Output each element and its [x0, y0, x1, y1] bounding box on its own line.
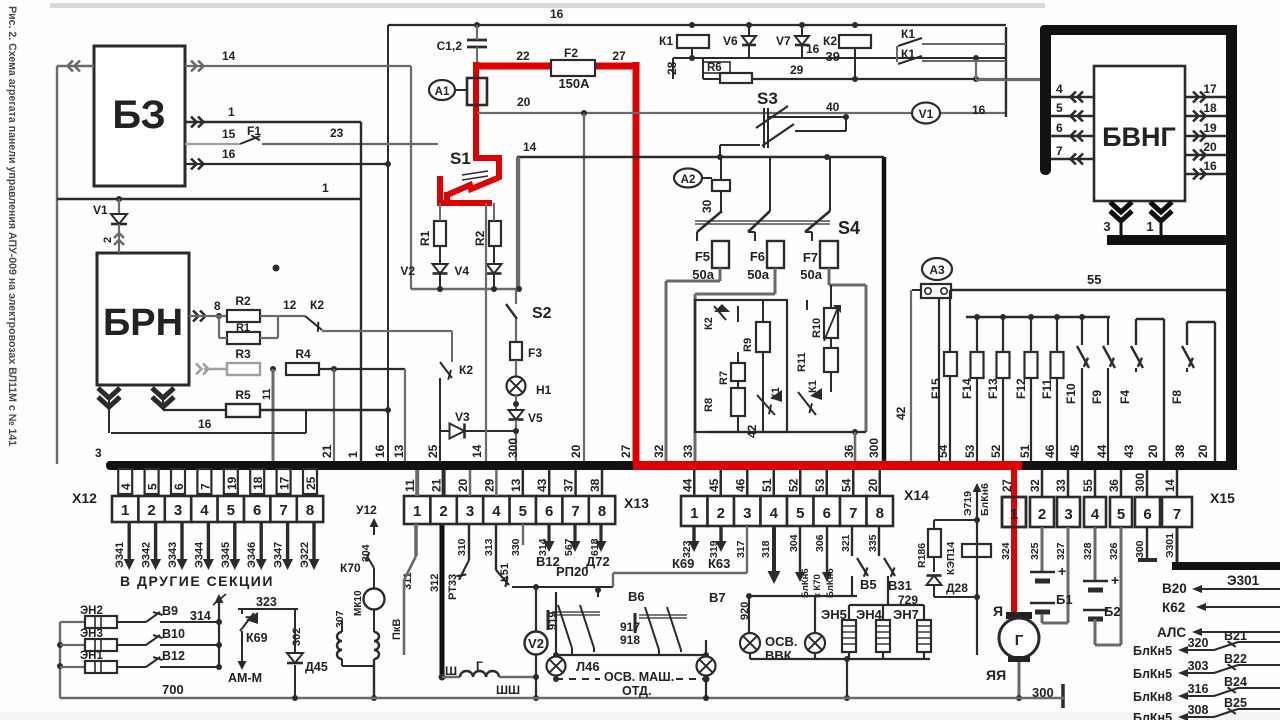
svg-text:2: 2	[439, 503, 447, 520]
svg-text:Э346: Э346	[246, 542, 258, 568]
svg-text:В20: В20	[1162, 581, 1187, 596]
svg-text:8: 8	[306, 502, 314, 519]
svg-text:К1: К1	[901, 27, 915, 41]
svg-text:25: 25	[426, 444, 440, 458]
svg-text:30: 30	[700, 199, 714, 213]
svg-text:К51: К51	[499, 563, 511, 582]
svg-text:ОСВ.: ОСВ.	[765, 634, 798, 649]
svg-text:6: 6	[1056, 121, 1063, 135]
svg-text:Э341: Э341	[114, 542, 126, 568]
svg-text:F6: F6	[750, 249, 765, 264]
svg-text:К1: К1	[659, 34, 673, 48]
svg-text:20: 20	[1196, 444, 1210, 458]
svg-text:1: 1	[228, 105, 235, 119]
svg-text:Э342: Э342	[141, 542, 153, 568]
svg-text:1: 1	[346, 451, 360, 458]
svg-text:4: 4	[492, 503, 501, 520]
svg-text:14: 14	[222, 49, 236, 63]
svg-text:6: 6	[172, 483, 186, 490]
svg-text:38: 38	[1173, 444, 1187, 458]
svg-text:303: 303	[1188, 659, 1209, 673]
svg-text:327: 327	[1055, 542, 1067, 560]
svg-text:R1: R1	[418, 230, 432, 246]
svg-text:Я: Я	[993, 603, 1003, 619]
svg-text:38: 38	[588, 478, 602, 492]
svg-text:S1: S1	[450, 149, 471, 168]
svg-text:F4: F4	[1118, 390, 1132, 404]
svg-text:В ДРУГИЕ СЕКЦИИ: В ДРУГИЕ СЕКЦИИ	[120, 573, 274, 589]
svg-text:РП20: РП20	[556, 564, 588, 579]
svg-text:R186: R186	[916, 543, 928, 568]
svg-text:К1: К1	[807, 380, 819, 393]
svg-text:Э322: Э322	[299, 542, 311, 568]
svg-text:R3: R3	[235, 347, 251, 361]
svg-text:R1: R1	[236, 322, 250, 334]
svg-text:16: 16	[373, 444, 387, 458]
svg-text:C1,2: C1,2	[437, 39, 463, 53]
svg-text:8: 8	[214, 299, 221, 313]
svg-text:20: 20	[866, 478, 880, 492]
svg-text:Э345: Э345	[220, 542, 232, 568]
svg-text:+: +	[1058, 563, 1066, 579]
svg-text:БлКн5: БлКн5	[1133, 711, 1172, 720]
svg-text:Э301: Э301	[1227, 573, 1260, 588]
svg-text:МК10: МК10	[353, 590, 364, 616]
svg-text:52: 52	[989, 444, 1003, 458]
svg-text:Х13: Х13	[624, 495, 649, 511]
svg-text:ОТД.: ОТД.	[622, 684, 651, 698]
svg-text:324: 324	[1000, 542, 1012, 560]
svg-text:44: 44	[1095, 444, 1109, 458]
svg-text:13: 13	[392, 444, 406, 458]
svg-text:307: 307	[334, 610, 346, 628]
svg-text:Л46: Л46	[576, 659, 600, 674]
svg-text:5: 5	[1056, 101, 1063, 115]
svg-text:ЭН7: ЭН7	[893, 607, 919, 622]
svg-text:700: 700	[162, 682, 184, 697]
svg-text:17: 17	[278, 476, 292, 490]
svg-text:5: 5	[519, 503, 527, 520]
svg-text:2: 2	[147, 502, 155, 519]
svg-text:F5: F5	[695, 249, 710, 264]
svg-text:4: 4	[1056, 82, 1063, 96]
svg-text:300: 300	[1135, 473, 1147, 492]
svg-text:БЗ: БЗ	[112, 93, 165, 137]
svg-text:А2: А2	[681, 174, 696, 186]
svg-text:21: 21	[320, 444, 334, 458]
svg-text:6: 6	[545, 503, 553, 520]
svg-text:36: 36	[1109, 479, 1121, 492]
svg-text:Х14: Х14	[904, 487, 929, 503]
svg-text:19: 19	[225, 476, 239, 490]
svg-text:3: 3	[174, 502, 182, 519]
svg-text:R5: R5	[235, 388, 251, 402]
svg-text:В10: В10	[162, 627, 185, 641]
svg-text:Н1: Н1	[536, 383, 552, 397]
svg-text:304: 304	[788, 534, 800, 552]
svg-text:В22: В22	[1224, 652, 1247, 666]
svg-text:БлКн6: БлКн6	[800, 568, 811, 598]
svg-text:ЭН2: ЭН2	[80, 605, 103, 617]
svg-text:БРН: БРН	[103, 302, 183, 344]
svg-text:5: 5	[227, 502, 235, 519]
svg-text:Э343: Э343	[167, 542, 179, 568]
svg-text:52: 52	[786, 478, 800, 492]
svg-text:S2: S2	[532, 305, 552, 322]
svg-text:БлКн6: БлКн6	[979, 483, 991, 516]
svg-text:К69: К69	[246, 631, 268, 645]
svg-text:50а: 50а	[800, 267, 822, 282]
svg-text:F7: F7	[803, 250, 818, 265]
svg-text:5: 5	[1117, 506, 1125, 523]
svg-text:32: 32	[652, 444, 666, 458]
svg-text:37: 37	[562, 478, 576, 492]
svg-text:25: 25	[304, 476, 318, 490]
svg-text:45: 45	[707, 478, 721, 492]
svg-text:11: 11	[261, 388, 273, 400]
svg-text:V1: V1	[93, 203, 108, 217]
svg-text:Х12: Х12	[72, 490, 97, 506]
svg-text:БВНГ: БВНГ	[1102, 122, 1176, 152]
svg-text:43: 43	[535, 478, 549, 492]
svg-text:Э719: Э719	[962, 491, 974, 516]
svg-text:54: 54	[936, 444, 950, 458]
svg-text:51: 51	[1018, 444, 1032, 458]
svg-text:54: 54	[839, 478, 853, 492]
svg-text:314: 314	[190, 609, 211, 623]
svg-text:ШШ: ШШ	[496, 683, 520, 697]
svg-text:13: 13	[509, 478, 523, 492]
svg-text:А3: А3	[929, 263, 945, 277]
svg-text:302: 302	[291, 628, 303, 646]
svg-text:308: 308	[1188, 703, 1209, 717]
svg-text:11: 11	[403, 479, 417, 492]
svg-text:317: 317	[735, 540, 747, 558]
svg-text:V4: V4	[454, 264, 469, 278]
svg-text:33: 33	[1056, 479, 1068, 492]
svg-text:6: 6	[253, 502, 261, 519]
svg-text:Рис. 2. Схема агрегата панели: Рис. 2. Схема агрегата панели управления…	[6, 6, 18, 446]
svg-text:14: 14	[523, 140, 537, 154]
svg-text:К2: К2	[703, 317, 715, 330]
svg-text:3: 3	[466, 503, 474, 520]
svg-text:1: 1	[1146, 219, 1153, 234]
svg-text:А1: А1	[435, 86, 450, 98]
svg-text:+: +	[1111, 572, 1119, 588]
svg-text:КЭП14: КЭП14	[945, 542, 957, 575]
svg-text:7: 7	[279, 502, 287, 519]
svg-text:Э344: Э344	[193, 541, 205, 568]
svg-text:21: 21	[430, 478, 444, 492]
svg-text:310: 310	[456, 538, 468, 556]
svg-text:V1: V1	[919, 107, 934, 121]
svg-text:20: 20	[1146, 444, 1160, 458]
svg-text:1: 1	[121, 502, 129, 519]
svg-text:300: 300	[506, 438, 520, 458]
svg-text:318: 318	[760, 540, 772, 558]
svg-text:321: 321	[840, 534, 852, 552]
svg-text:1: 1	[413, 503, 421, 520]
svg-text:5: 5	[796, 505, 804, 522]
svg-text:32: 32	[1030, 479, 1042, 492]
svg-text:Х15: Х15	[1210, 490, 1235, 506]
svg-text:В24: В24	[1224, 675, 1247, 689]
svg-text:27: 27	[619, 444, 633, 458]
svg-text:4: 4	[1091, 506, 1100, 523]
svg-text:36: 36	[842, 444, 856, 458]
svg-text:К62: К62	[1162, 600, 1185, 615]
svg-text:V2: V2	[400, 264, 415, 278]
svg-text:F11: F11	[1040, 379, 1054, 399]
svg-text:23: 23	[330, 126, 344, 140]
svg-text:320: 320	[1188, 636, 1209, 650]
svg-text:F2: F2	[564, 46, 578, 60]
svg-text:53: 53	[963, 444, 977, 458]
svg-text:ВВК: ВВК	[765, 648, 792, 663]
svg-text:312: 312	[429, 574, 441, 592]
svg-text:3: 3	[1103, 219, 1110, 234]
svg-text:БлКн5: БлКн5	[1133, 644, 1172, 658]
svg-text:20: 20	[1203, 140, 1217, 154]
svg-text:7: 7	[198, 483, 212, 490]
svg-text:5: 5	[146, 483, 160, 490]
svg-text:РТ33: РТ33	[447, 574, 459, 600]
svg-text:28: 28	[665, 61, 679, 75]
svg-text:20: 20	[569, 444, 583, 458]
svg-text:18: 18	[251, 476, 265, 490]
svg-text:V3: V3	[455, 410, 470, 424]
svg-text:R10: R10	[811, 318, 823, 338]
svg-text:ЭН5: ЭН5	[821, 607, 847, 622]
svg-text:К2: К2	[459, 363, 473, 377]
svg-text:917: 917	[620, 620, 640, 634]
svg-text:БлКн5: БлКн5	[825, 568, 836, 598]
svg-text:R11: R11	[796, 352, 808, 372]
svg-text:3: 3	[743, 505, 751, 522]
svg-text:12: 12	[283, 298, 297, 312]
svg-text:323: 323	[256, 595, 277, 609]
svg-text:7: 7	[571, 503, 579, 520]
svg-text:42: 42	[745, 424, 759, 438]
svg-text:33: 33	[681, 444, 695, 458]
svg-text:16: 16	[972, 103, 986, 117]
svg-text:F3: F3	[528, 346, 542, 360]
svg-text:40: 40	[826, 100, 840, 114]
svg-text:Г: Г	[1015, 632, 1024, 649]
svg-text:R2: R2	[235, 294, 251, 308]
svg-text:ПкВ: ПкВ	[391, 619, 403, 640]
svg-text:313: 313	[483, 538, 495, 556]
svg-text:2: 2	[102, 237, 114, 243]
svg-text:19: 19	[1203, 121, 1217, 135]
svg-text:7: 7	[849, 505, 857, 522]
svg-text:1: 1	[690, 505, 698, 522]
svg-text:20: 20	[517, 95, 531, 109]
svg-text:3: 3	[1064, 506, 1072, 523]
svg-text:S4: S4	[838, 218, 860, 238]
svg-text:F14: F14	[960, 378, 974, 399]
svg-text:В6: В6	[628, 589, 645, 604]
svg-text:29: 29	[790, 63, 804, 77]
svg-text:20: 20	[456, 478, 470, 492]
svg-text:326: 326	[1108, 542, 1120, 560]
svg-text:F12: F12	[1014, 378, 1028, 399]
svg-text:328: 328	[1082, 542, 1094, 560]
svg-text:53: 53	[813, 478, 827, 492]
svg-text:F15: F15	[929, 378, 943, 399]
svg-text:ЯЯ: ЯЯ	[986, 667, 1006, 683]
svg-text:55: 55	[1087, 272, 1101, 287]
svg-text:4: 4	[119, 483, 133, 490]
svg-text:29: 29	[482, 478, 496, 492]
svg-text:К70: К70	[340, 561, 361, 575]
svg-text:15: 15	[222, 127, 236, 141]
svg-text:51: 51	[760, 478, 774, 492]
svg-text:БлКн8: БлКн8	[1133, 690, 1172, 704]
svg-text:В21: В21	[1224, 629, 1247, 643]
svg-text:2: 2	[717, 505, 725, 522]
svg-text:335: 335	[867, 534, 879, 552]
svg-text:R7: R7	[718, 371, 730, 385]
svg-text:22: 22	[516, 49, 530, 63]
svg-text:F9: F9	[1090, 390, 1104, 404]
svg-text:Б2: Б2	[1104, 604, 1121, 619]
svg-text:42: 42	[894, 406, 908, 420]
svg-text:Э347: Э347	[273, 542, 285, 568]
svg-text:К2: К2	[823, 34, 837, 48]
svg-text:V2: V2	[528, 636, 544, 651]
svg-text:к К70: к К70	[812, 574, 823, 598]
svg-text:44: 44	[680, 478, 694, 492]
svg-text:R9: R9	[742, 338, 754, 352]
svg-text:306: 306	[814, 534, 826, 552]
svg-text:3: 3	[95, 446, 102, 460]
svg-text:50а: 50а	[747, 267, 769, 282]
svg-text:18: 18	[1203, 101, 1217, 115]
svg-text:16: 16	[198, 417, 212, 431]
svg-text:К63: К63	[708, 556, 730, 571]
svg-text:В5: В5	[860, 577, 877, 592]
svg-text:4: 4	[770, 505, 779, 522]
svg-text:14: 14	[1165, 479, 1177, 492]
svg-text:6: 6	[823, 505, 831, 522]
svg-text:8: 8	[876, 505, 884, 522]
svg-text:46: 46	[733, 478, 747, 492]
svg-text:В25: В25	[1224, 696, 1247, 710]
svg-text:В7: В7	[709, 590, 726, 605]
svg-text:F13: F13	[986, 378, 1000, 399]
svg-text:Д72: Д72	[586, 554, 610, 569]
svg-text:V7: V7	[776, 34, 791, 48]
svg-text:918: 918	[620, 633, 640, 647]
svg-text:39: 39	[826, 49, 840, 64]
svg-text:43: 43	[1122, 444, 1136, 458]
svg-text:300: 300	[867, 438, 881, 458]
svg-text:1: 1	[322, 181, 329, 195]
svg-text:2: 2	[1038, 506, 1046, 523]
svg-text:Б1: Б1	[1056, 592, 1073, 607]
svg-text:17: 17	[1203, 82, 1217, 96]
svg-text:6: 6	[1143, 506, 1151, 523]
svg-text:В12: В12	[162, 649, 185, 663]
svg-text:55: 55	[1083, 479, 1095, 492]
svg-text:8: 8	[598, 503, 606, 520]
svg-text:16: 16	[222, 147, 236, 161]
svg-text:Д28: Д28	[946, 581, 968, 595]
svg-text:7: 7	[1173, 506, 1181, 523]
svg-text:Д45: Д45	[305, 660, 328, 674]
svg-text:16: 16	[1203, 159, 1217, 173]
svg-text:Э301: Э301	[1164, 533, 1176, 558]
svg-text:46: 46	[1043, 444, 1057, 458]
svg-text:ЭН4: ЭН4	[856, 607, 883, 622]
svg-text:14: 14	[470, 444, 484, 458]
svg-text:330: 330	[510, 538, 522, 556]
svg-text:S3: S3	[757, 89, 778, 108]
svg-text:К69: К69	[672, 556, 694, 571]
svg-text:7: 7	[1056, 144, 1063, 158]
svg-text:R4: R4	[295, 347, 311, 361]
svg-text:27: 27	[612, 49, 626, 63]
svg-text:V5: V5	[528, 411, 543, 425]
svg-text:F8: F8	[1170, 390, 1184, 404]
svg-text:150А: 150А	[558, 76, 590, 91]
svg-text:316: 316	[1188, 682, 1209, 696]
svg-text:729: 729	[898, 593, 918, 607]
svg-text:300: 300	[1134, 540, 1146, 558]
svg-text:В31: В31	[888, 578, 912, 593]
svg-text:1: 1	[1010, 506, 1018, 523]
svg-text:R8: R8	[703, 398, 715, 412]
svg-text:В9: В9	[162, 604, 178, 618]
svg-text:4: 4	[200, 502, 209, 519]
svg-text:45: 45	[1068, 444, 1082, 458]
svg-text:ЭН1: ЭН1	[80, 650, 103, 662]
svg-text:БлКн5: БлКн5	[1133, 667, 1172, 681]
svg-text:V6: V6	[723, 34, 738, 48]
svg-text:У12: У12	[356, 503, 377, 517]
svg-text:325: 325	[1029, 542, 1041, 560]
svg-text:К2: К2	[310, 298, 324, 312]
svg-text:567: 567	[563, 538, 575, 556]
svg-text:16: 16	[550, 7, 564, 21]
svg-text:ОСВ. МАШ.: ОСВ. МАШ.	[604, 670, 674, 684]
svg-text:ЭН3: ЭН3	[80, 628, 103, 640]
svg-text:F10: F10	[1064, 383, 1078, 404]
svg-text:АЛС: АЛС	[1157, 625, 1186, 640]
svg-text:АМ-М: АМ-М	[228, 671, 262, 685]
